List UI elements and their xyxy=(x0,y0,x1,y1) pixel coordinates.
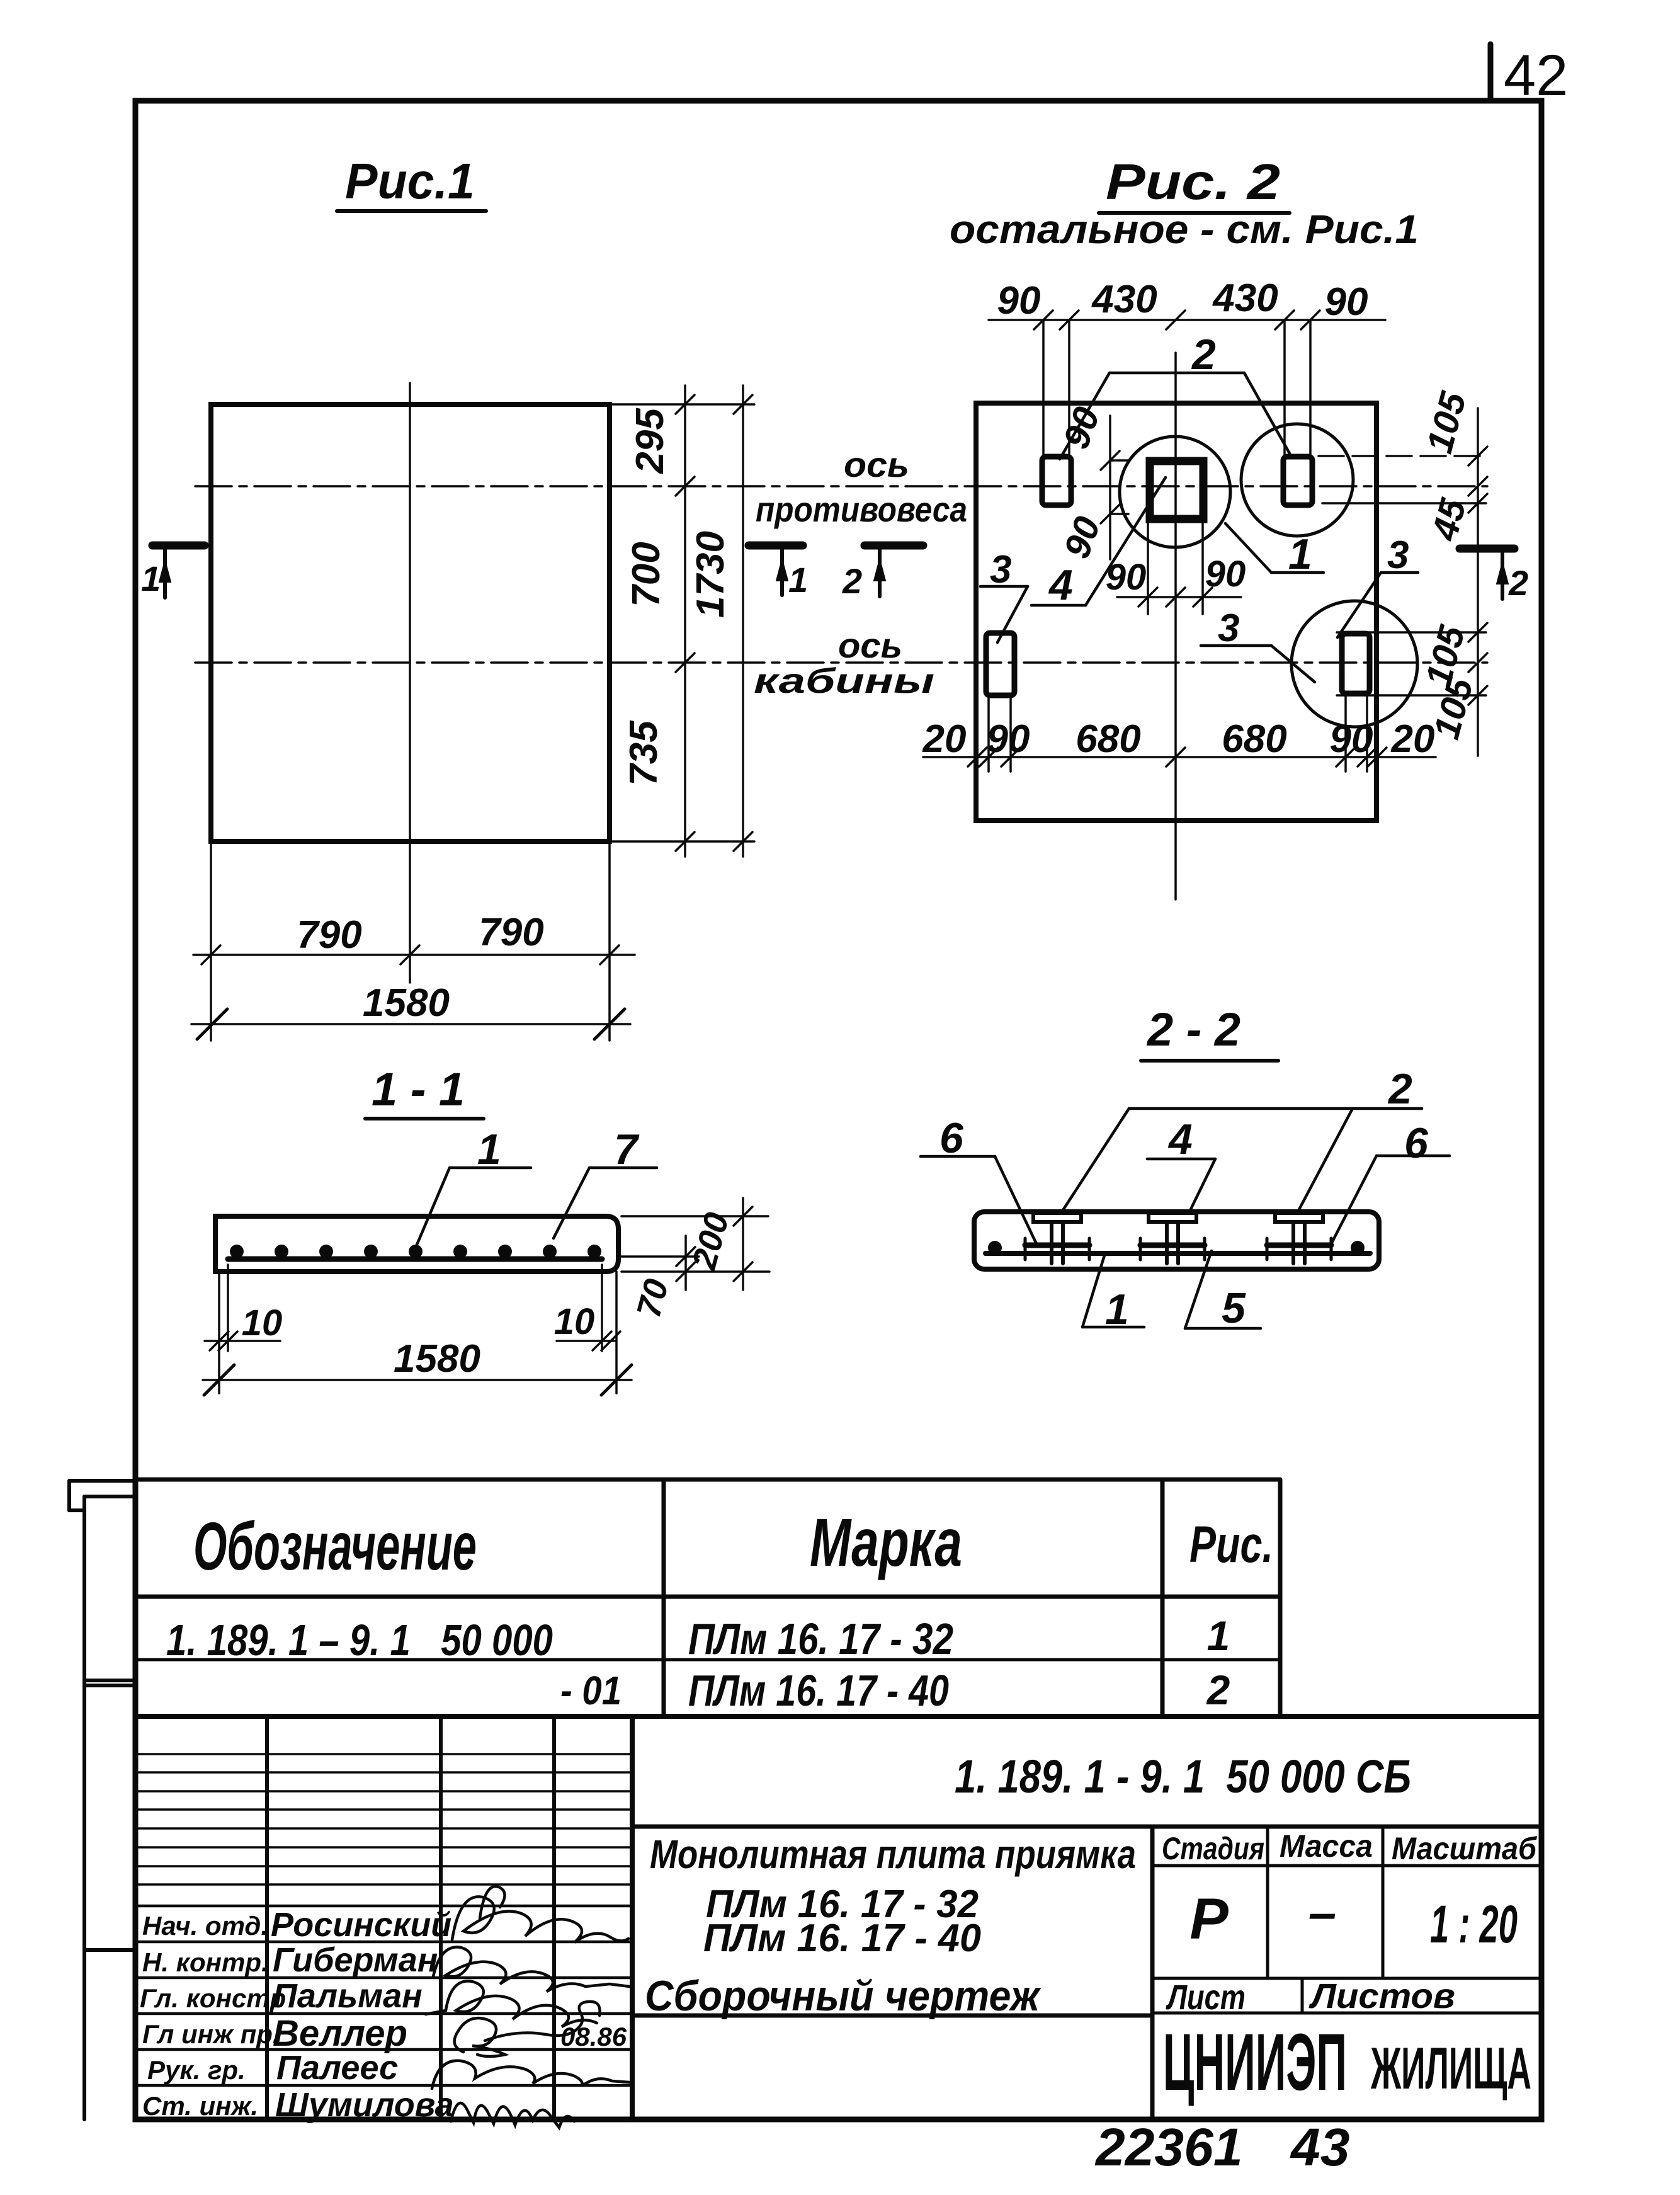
svg-text:1580: 1580 xyxy=(394,1337,480,1381)
Fig.1 slab plan outline xyxy=(211,404,610,841)
svg-text:4: 4 xyxy=(1048,561,1073,609)
svg-text:Листов: Листов xyxy=(1308,1976,1455,2015)
extension lines right xyxy=(620,1216,769,1272)
svg-text:Монолитная плита приямка: Монолитная плита приямка xyxy=(650,1832,1136,1877)
dim line 790 790 xyxy=(193,945,635,964)
leader label 4 xyxy=(1031,477,1166,605)
svg-text:22361: 22361 xyxy=(1094,2118,1243,2177)
svg-text:Рис.: Рис. xyxy=(1189,1515,1273,1573)
rebar end dots xyxy=(988,1241,1365,1255)
svg-text:Веллер: Веллер xyxy=(273,2013,407,2054)
anchor item 3 bottom-left xyxy=(986,633,1014,695)
leader label 6 right xyxy=(1331,1156,1450,1244)
left binding strip xyxy=(69,1481,135,2119)
svg-text:20: 20 xyxy=(1391,717,1435,761)
svg-text:ЦНИИЭП: ЦНИИЭП xyxy=(1163,2017,1347,2107)
anchor item 3 bottom-right xyxy=(1342,634,1370,693)
svg-text:Ст. инж.: Ст. инж. xyxy=(142,2091,258,2121)
svg-text:700: 700 xyxy=(625,542,668,607)
svg-text:90: 90 xyxy=(1205,554,1246,595)
svg-text:остальное - см. Рис.1: остальное - см. Рис.1 xyxy=(950,207,1419,252)
svg-text:1 - 1: 1 - 1 xyxy=(372,1063,465,1115)
svg-text:ПЛм 16. 17 - 40: ПЛм 16. 17 - 40 xyxy=(703,1917,981,1960)
svg-text:3: 3 xyxy=(1218,607,1239,650)
svg-text:Рис. 2: Рис. 2 xyxy=(1106,154,1280,210)
svg-text:1: 1 xyxy=(477,1126,501,1173)
section 2-2 slab xyxy=(974,1212,1379,1269)
section mark 2 right xyxy=(1460,549,1528,603)
bottom anchors extension lines xyxy=(977,693,1377,821)
svg-text:Рис.1: Рис.1 xyxy=(345,153,475,209)
signature Giberman xyxy=(433,1947,630,1992)
svg-text:Сборочный чертеж: Сборочный чертеж xyxy=(645,1972,1041,2020)
svg-text:90: 90 xyxy=(997,279,1041,322)
section mark 2 left xyxy=(842,545,923,601)
signature Palees xyxy=(432,2061,630,2089)
section 1-1 title xyxy=(365,1063,484,1119)
section 1-1 slab xyxy=(215,1216,618,1272)
svg-text:430: 430 xyxy=(1091,278,1157,321)
svg-text:2: 2 xyxy=(1206,1667,1230,1713)
right reference lines to dim column xyxy=(1319,456,1486,695)
svg-text:Рук. гр.: Рук. гр. xyxy=(147,2055,246,2085)
specification table xyxy=(135,1479,1280,1716)
personnel roles xyxy=(140,1911,286,2121)
detail circle around bottom-right anchor xyxy=(1291,601,1417,727)
svg-text:2 - 2: 2 - 2 xyxy=(1146,1003,1240,1056)
svg-text:3: 3 xyxy=(990,548,1011,591)
svg-text:295: 295 xyxy=(628,408,672,474)
signature Palman xyxy=(426,1981,597,2027)
svg-text:90: 90 xyxy=(1325,280,1368,324)
svg-text:2: 2 xyxy=(842,561,862,601)
Fig.1 right extension lines xyxy=(610,403,754,406)
svg-text:Палеес: Палеес xyxy=(276,2049,398,2087)
svg-text:790: 790 xyxy=(479,911,543,954)
page number tick xyxy=(1488,44,1494,100)
svg-text:1 : 20: 1 : 20 xyxy=(1430,1895,1518,1954)
svg-text:Масса: Масса xyxy=(1280,1828,1373,1864)
counterweight axis line xyxy=(195,485,1487,487)
svg-text:6: 6 xyxy=(939,1114,964,1162)
svg-text:2: 2 xyxy=(1387,1065,1412,1113)
Fig.2 slab plan outline xyxy=(976,403,1376,821)
signature Rosinskiy xyxy=(452,1886,628,1942)
personnel names xyxy=(271,1906,454,2124)
anchor item 1 center (detail) xyxy=(1150,461,1203,519)
anchor item 2 top-left xyxy=(1042,457,1071,505)
svg-text:ПЛм 16. 17 - 32: ПЛм 16. 17 - 32 xyxy=(688,1614,953,1663)
svg-text:680: 680 xyxy=(1222,717,1286,761)
svg-text:Нач. отд.: Нач. отд. xyxy=(142,1911,268,1941)
svg-text:1. 189. 1 – 9. 1 50 000: 1. 189. 1 – 9. 1 50 000 xyxy=(166,1616,553,1665)
Fig.2 title xyxy=(1099,154,1290,213)
svg-text:кабины: кабины xyxy=(754,661,934,700)
svg-text:Шумилова: Шумилова xyxy=(275,2086,454,2124)
section mark 1 right xyxy=(749,545,808,600)
personnel name rows xyxy=(135,1906,632,2085)
leader label 1 xyxy=(414,1168,531,1252)
dim line 1580 xyxy=(191,1009,630,1039)
dim line 1730 xyxy=(734,385,752,857)
extension lines anchors to top dim xyxy=(1043,320,1310,457)
leader label 1 xyxy=(1225,523,1324,573)
svg-text:7: 7 xyxy=(614,1126,640,1173)
svg-text:2: 2 xyxy=(1508,563,1528,603)
leader label 7 xyxy=(553,1168,657,1238)
svg-text:08.86: 08.86 xyxy=(560,2022,627,2051)
Fig.1 vertical center line xyxy=(409,383,411,983)
svg-text:4: 4 xyxy=(1167,1115,1193,1163)
dim 10 right xyxy=(557,1331,620,1350)
signature Shumilova xyxy=(451,2103,574,2128)
Fig.1 bottom extension lines xyxy=(210,841,212,1040)
svg-text:1: 1 xyxy=(1105,1286,1129,1333)
svg-text:Гл инж пр.: Гл инж пр. xyxy=(142,2019,280,2049)
svg-text:Обозначение: Обозначение xyxy=(193,1509,477,1584)
svg-text:ЖИЛИЩА: ЖИЛИЩА xyxy=(1370,2036,1531,2101)
svg-text:1: 1 xyxy=(1207,1612,1230,1659)
dim 70 xyxy=(676,1236,695,1290)
stage/mass/scale values xyxy=(1189,1884,1518,1954)
dim 10 left xyxy=(205,1331,280,1350)
anchor item 2 top-right xyxy=(1283,457,1312,505)
svg-text:Гл. констр: Гл. констр xyxy=(140,1983,286,2013)
extension lines bottom xyxy=(219,1265,616,1393)
svg-text:2: 2 xyxy=(1191,331,1216,379)
svg-text:3: 3 xyxy=(1387,533,1409,577)
svg-text:Р: Р xyxy=(1189,1887,1229,1951)
leader label 4 xyxy=(1147,1159,1215,1213)
detail circle around item 1 xyxy=(1120,436,1230,547)
svg-text:Стадия: Стадия xyxy=(1162,1831,1264,1866)
svg-text:Пальман: Пальман xyxy=(273,1977,423,2015)
vertical 90/90 dim at center anchor xyxy=(1101,416,1128,559)
leader label 3 right xyxy=(1337,573,1418,637)
svg-text:ПЛм 16. 17 - 40: ПЛм 16. 17 - 40 xyxy=(688,1666,949,1715)
svg-text:1: 1 xyxy=(141,559,161,598)
svg-text:1730: 1730 xyxy=(689,531,732,618)
designation cell line xyxy=(632,1825,1541,1829)
svg-text:Росинский: Росинский xyxy=(271,1906,451,1944)
svg-text:1580: 1580 xyxy=(363,981,450,1025)
svg-text:Масштаб: Масштаб xyxy=(1392,1831,1538,1866)
right vertical dim line 105/45/105/105 xyxy=(1468,408,1487,756)
section 1-1 mesh bar item 1 xyxy=(228,1257,602,1262)
leader label 5 xyxy=(1185,1251,1261,1328)
dim 1580 xyxy=(203,1365,632,1395)
svg-text:43: 43 xyxy=(1290,2118,1349,2177)
svg-text:10: 10 xyxy=(242,1303,283,1343)
drawing frame xyxy=(135,101,1541,2119)
svg-text:1: 1 xyxy=(1288,530,1312,578)
svg-text:20: 20 xyxy=(922,717,967,761)
dim 200 xyxy=(734,1198,752,1290)
stage/mass/scale header cells xyxy=(1152,1827,1541,1978)
section 2-2 title xyxy=(1141,1003,1278,1061)
mesh cross ticks xyxy=(1025,1238,1331,1260)
leader label 2 xyxy=(1060,373,1292,459)
svg-text:6: 6 xyxy=(1404,1119,1429,1167)
horizontal 90/90 dim below center anchor xyxy=(1117,523,1241,614)
leader label 2 xyxy=(1061,1109,1422,1213)
signature Veller xyxy=(455,2002,600,2056)
svg-text:Лист: Лист xyxy=(1166,1977,1246,2017)
svg-text:–: – xyxy=(1308,1884,1337,1941)
svg-text:противовеса: противовеса xyxy=(756,489,967,529)
svg-text:Н. контр.: Н. контр. xyxy=(142,1947,269,1977)
section mark 1 left xyxy=(141,545,205,598)
leader label 1 xyxy=(1082,1255,1144,1327)
svg-text:90: 90 xyxy=(1106,557,1147,598)
leader label 6 left xyxy=(921,1156,1037,1245)
personnel table verticals xyxy=(267,1716,632,2119)
svg-text:1. 189. 1 - 9. 1 50 000 СБ: 1. 189. 1 - 9. 1 50 000 СБ xyxy=(955,1750,1411,1803)
svg-text:90: 90 xyxy=(1330,717,1373,761)
title block top line xyxy=(135,1714,1541,1719)
personnel table thin rows xyxy=(135,1754,632,1884)
detail circle around top-right anchor xyxy=(1241,424,1353,536)
Fig.2 vertical center line xyxy=(1174,353,1177,899)
Fig.1 title xyxy=(337,153,486,211)
svg-text:1: 1 xyxy=(788,560,808,600)
cabin axis line xyxy=(195,661,1487,664)
svg-text:430: 430 xyxy=(1212,277,1278,320)
top dim line 90-430-430-90 xyxy=(989,311,1385,329)
svg-text:680: 680 xyxy=(1076,717,1140,761)
rebar dots xyxy=(230,1245,601,1258)
bottom dim line 20-90-680-680-90-20 xyxy=(923,748,1436,767)
leader label 3 left xyxy=(980,586,1028,642)
anchor bolt left (item 2/6) xyxy=(1025,1213,1089,1263)
anchor bolt middle (item 4) xyxy=(1140,1213,1205,1263)
svg-text:735: 735 xyxy=(622,720,666,786)
svg-text:Гиберман: Гиберман xyxy=(273,1941,438,1979)
svg-text:5: 5 xyxy=(1222,1284,1246,1332)
svg-text:ось: ось xyxy=(844,445,909,484)
svg-text:- 01: - 01 xyxy=(560,1668,621,1713)
anchor bolt right (item 2/6) xyxy=(1267,1213,1331,1263)
list/listov row xyxy=(1152,1978,1541,2013)
title cell divider xyxy=(1150,1827,1155,2119)
section 2-2 mesh bar item 5 xyxy=(985,1251,1370,1256)
svg-text:10: 10 xyxy=(554,1301,595,1342)
drawing title text xyxy=(645,1832,1136,2020)
leader label 3 middle xyxy=(1201,646,1315,682)
dim line 295-700-735 xyxy=(676,385,695,857)
svg-text:790: 790 xyxy=(297,913,361,957)
svg-text:90: 90 xyxy=(987,717,1030,761)
svg-text:Марка: Марка xyxy=(810,1505,962,1580)
svg-text:ось: ось xyxy=(838,625,902,665)
